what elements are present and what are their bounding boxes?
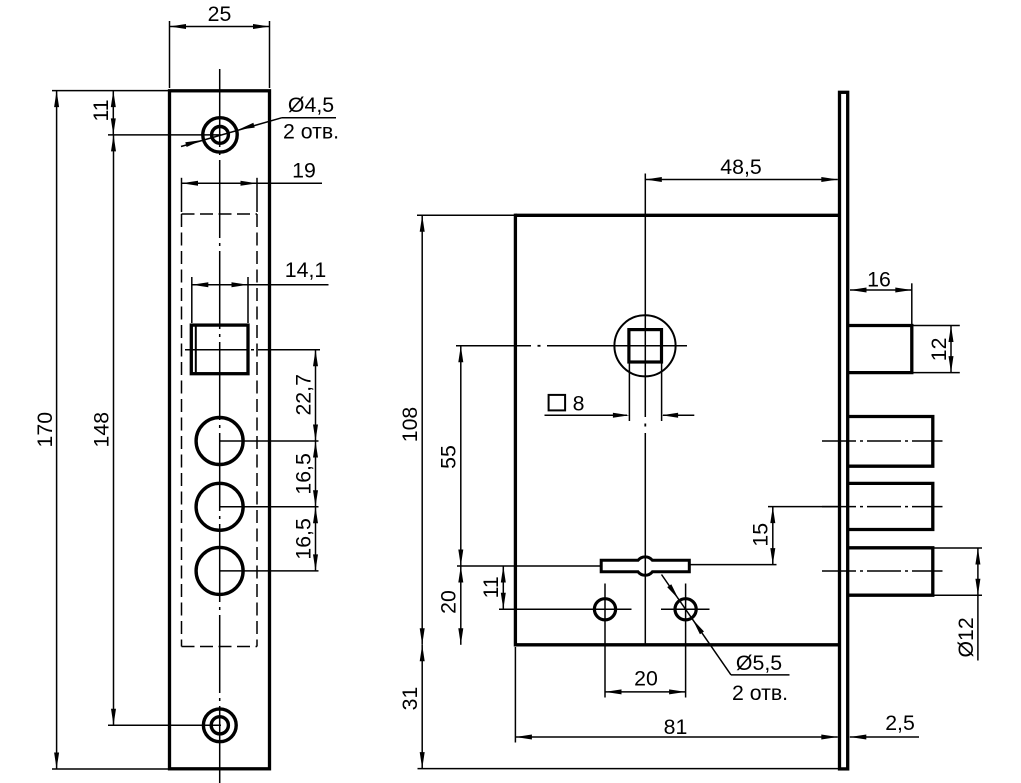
svg-text:20: 20 [634, 667, 658, 691]
svg-text:19: 19 [292, 158, 316, 182]
diameter 4,5 leader line [181, 118, 336, 147]
svg-text:22,7: 22,7 [292, 374, 316, 415]
top screw hole centerline [108, 134, 221, 136]
bottom screw hole [203, 709, 236, 742]
dimension 16,5 upper [292, 441, 318, 507]
cylinder hole 2 [196, 483, 243, 530]
hidden lock-body dashed rectangle [182, 214, 258, 647]
dimension 22,7 [292, 350, 318, 441]
spindle square hole [629, 330, 662, 362]
cylinder hole 1 [196, 418, 243, 465]
bolt C (side view) [849, 548, 933, 595]
fixing hole right vertical centerline [685, 584, 687, 698]
dimension square 8 symbol and label [549, 391, 585, 415]
dimension 170 extension line (plate bottom extended) [52, 768, 168, 770]
svg-text:14,1: 14,1 [285, 258, 326, 282]
svg-text:Ø5,5: Ø5,5 [736, 651, 782, 675]
dimension 2,5 [850, 711, 919, 739]
svg-text:170: 170 [33, 412, 57, 448]
svg-text:20: 20 [437, 590, 461, 614]
fixing hole right (side view) [675, 599, 696, 620]
svg-text:Ø12: Ø12 [954, 617, 978, 657]
svg-text:55: 55 [437, 445, 461, 469]
dimension 16,5 lower [292, 507, 318, 571]
dimension 8 arrows [545, 363, 695, 421]
svg-text:2,5: 2,5 [885, 711, 915, 735]
fixing hole left (side view) [594, 599, 615, 620]
dimension 81 [515, 715, 837, 740]
svg-text:2 отв.: 2 отв. [283, 119, 339, 143]
dimension 170 [33, 91, 59, 769]
latch bolt front face [191, 325, 248, 374]
svg-text:16,5: 16,5 [292, 518, 316, 559]
faceplate front view outline [170, 91, 270, 769]
lock body outline [515, 214, 839, 647]
spindle vertical centerline [644, 174, 646, 645]
svg-text:25: 25 [208, 2, 232, 26]
fixing hole left vertical centerline [604, 584, 606, 698]
lever centerline left extension [457, 565, 601, 567]
dimension 16 extension line [911, 283, 913, 324]
bolt B centerline [822, 506, 943, 508]
bolt A (side view) [849, 417, 933, 467]
fixing holes horizontal centerline [499, 608, 632, 610]
dimension 25 [170, 2, 270, 29]
cylinder hole 2 center leader line [220, 506, 319, 508]
svg-text:48,5: 48,5 [720, 155, 761, 179]
dimension 11 extension line (plate top extended) [52, 90, 168, 92]
dimension 11 (left view) [89, 91, 116, 135]
svg-text:Ø4,5: Ø4,5 [288, 93, 334, 117]
diameter 5,5 leader line [662, 575, 790, 675]
dimension 15 extension line (bolt B) [768, 506, 838, 508]
vertical centerline of faceplate [219, 69, 221, 783]
dimension 55 [437, 346, 464, 566]
dimension 108 extension line (body top extended) [417, 214, 514, 216]
dimension 19 extension lines [182, 178, 258, 212]
dimension 12 extension lines [912, 326, 960, 373]
svg-text:81: 81 [664, 715, 688, 739]
dimension 15 [749, 507, 776, 565]
label diameter 4,5 [288, 93, 334, 117]
svg-text:12: 12 [927, 338, 951, 362]
dimension 31 bottom extension line [418, 768, 844, 770]
top screw hole [203, 118, 237, 152]
label 2 holes (left view) [283, 119, 339, 143]
label 2 holes (side view) [732, 681, 788, 705]
bottom screw hole centerline [108, 724, 221, 726]
dimension 19 [182, 158, 323, 185]
label diameter 5,5 [736, 651, 782, 675]
dimension 14,1 extension lines [192, 277, 248, 323]
dimension 16 [850, 268, 912, 293]
bolt B (side view) [849, 483, 933, 529]
dimension 12 [927, 326, 954, 373]
thumbturn lever [601, 557, 689, 575]
svg-text:31: 31 [398, 687, 422, 711]
dimension 31 [398, 645, 425, 769]
bolt A centerline [822, 440, 943, 442]
svg-text:8: 8 [573, 391, 585, 415]
svg-text:148: 148 [90, 412, 114, 448]
latch stub (side view) [849, 326, 912, 373]
dimension 20 (hole spacing) [605, 667, 686, 695]
lever centerline right extension [690, 564, 777, 566]
dimension diameter 12 extension lines [933, 548, 982, 595]
spindle horizontal centerline [456, 345, 687, 347]
svg-text:11: 11 [479, 576, 503, 598]
latch centerline [185, 349, 320, 351]
dimension 11 (lever to hole) [479, 566, 506, 609]
dimension 148 [90, 135, 117, 725]
bolt C centerline [822, 570, 943, 572]
cylinder hole 3 [196, 547, 243, 594]
faceplate side view [840, 92, 848, 769]
svg-text:16,5: 16,5 [292, 453, 316, 494]
svg-text:2 отв.: 2 отв. [732, 681, 788, 705]
fixing hole right horizontal centerline [661, 608, 710, 610]
cylinder hole 1 center leader line [220, 440, 319, 442]
spindle hub circle [614, 315, 675, 376]
dimension 20 (body bottom to lever) [437, 566, 464, 645]
svg-text:15: 15 [749, 523, 773, 547]
dimension 14,1 [192, 258, 329, 287]
svg-text:108: 108 [398, 407, 422, 443]
dimension 81 extension line (body left extended) [514, 647, 516, 743]
svg-text:11: 11 [89, 99, 113, 121]
svg-text:16: 16 [867, 268, 891, 292]
dimension 48,5 [645, 155, 838, 182]
cylinder hole 3 center leader line [220, 570, 319, 572]
dimension diameter 12 [954, 548, 981, 661]
dimension 25 extension lines [170, 21, 270, 88]
dimension 108 [398, 215, 425, 645]
